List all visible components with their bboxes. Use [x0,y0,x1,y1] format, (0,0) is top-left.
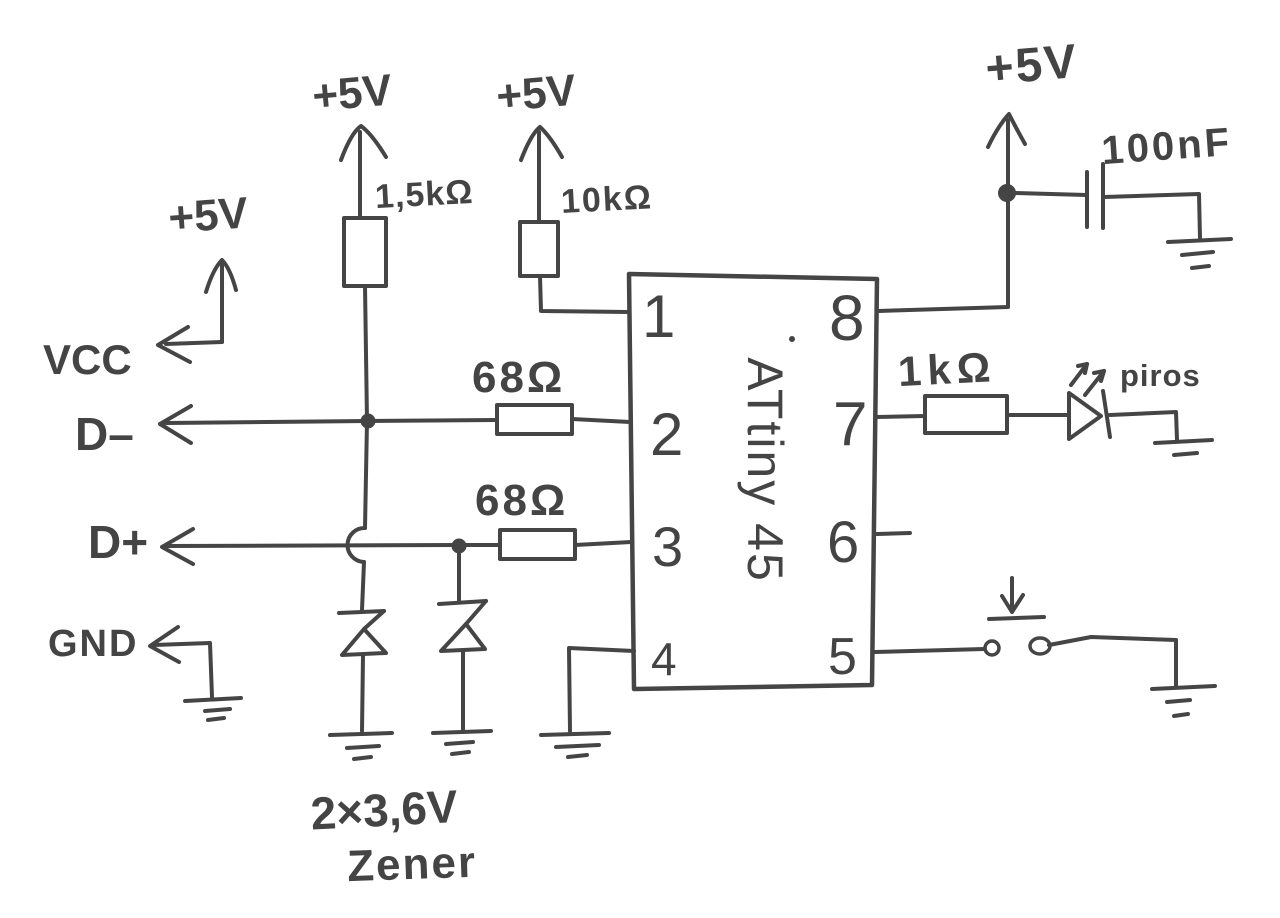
note Zener [346,838,477,892]
LED D3 [1069,391,1110,439]
wire +5V node to C1 [1014,193,1086,195]
power arrow +5V top right [988,114,1025,186]
resistor R1 1.5k [344,218,386,286]
pin 8 label [829,282,865,354]
wire pin5 to switch [875,649,984,652]
ground under pin 4 [541,733,609,757]
svg-text:68Ω: 68Ω [475,476,568,525]
wire R1 to D- junction [365,286,367,421]
value label 10kOhm [560,178,654,221]
wire hop over D+ [348,528,365,562]
wire D+ horizontal [164,545,499,546]
pin 3 label [652,515,683,578]
svg-text:1kΩ: 1kΩ [897,343,998,395]
value label 68Ohm (D-) [472,353,565,402]
svg-text:4: 4 [651,633,677,685]
svg-text:D–: D– [75,408,134,460]
value label 100nF [1100,120,1233,173]
node label GND [48,623,138,665]
svg-text:1: 1 [642,283,675,350]
junction +5V node [1000,186,1014,200]
svg-text:2×3,6V: 2×3,6V [309,780,459,840]
wire pin4 to ground [569,648,634,731]
wire R5 to LED [1007,413,1067,417]
node label VCC [43,336,132,383]
node label D- [75,408,134,460]
value label 68Ohm (D+) [475,476,568,525]
svg-text:7: 7 [833,390,867,459]
svg-text:1,5kΩ: 1,5kΩ [374,173,474,216]
ground under D1 [330,733,392,759]
pin 6 label [827,510,859,575]
capacitor C1 100nF [1087,164,1103,228]
power label +5V above R1 [310,65,394,121]
IC name ATtiny45 [737,357,793,583]
svg-text:D+: D+ [88,516,148,568]
wire LED to ground [1110,412,1177,440]
svg-text:5: 5 [828,628,857,686]
node label D+ [88,516,148,568]
wire pin7 to R5 [876,416,925,417]
GND arrow head [150,627,179,662]
wire pin8 to +5V node [878,200,1008,311]
zener diode D1 [339,611,386,655]
svg-text:3: 3 [652,515,683,578]
wire D2 to ground [461,651,465,729]
wire R3 to pin2 [572,419,630,422]
svg-text:VCC: VCC [43,336,132,383]
resistor R3 68 (D-) [497,405,572,434]
ground right of C1 [1168,239,1231,268]
wire R4 to pin3 [575,542,631,545]
ground under D2 [433,731,491,754]
pin 4 label [651,633,677,685]
D+ arrow head [162,529,193,564]
wire D- horizontal [166,420,497,423]
svg-text:+5V: +5V [983,35,1080,96]
value label 1kOhm [897,343,998,395]
pin 1 label [642,283,675,350]
power arrow above R2 [521,127,562,222]
power label +5V above R2 [494,65,578,121]
svg-text:8: 8 [829,282,865,354]
wire D1 to ground [362,655,363,731]
svg-text:ATtiny 45: ATtiny 45 [737,357,793,583]
svg-text:+5V: +5V [167,188,250,242]
wire hop to zener D1 [362,562,364,610]
label piros [1120,358,1201,393]
junction D+ node [454,541,465,552]
wire R2 to pin1 [540,276,629,312]
switch S1 contacts [985,638,1050,655]
svg-text:piros: piros [1120,358,1201,393]
D- arrow head [160,406,191,443]
power label +5V above VCC arrow [167,188,250,242]
stray pencil dot [789,336,795,342]
switch press arrow [989,578,1044,619]
wire D+ junction to zener D2 [457,546,461,601]
svg-text:+5V: +5V [494,65,578,121]
zener diode D2 [439,601,486,651]
LED light arrows [1071,364,1104,395]
pin 6 stub wire [877,533,910,534]
resistor R5 1k [925,396,1007,433]
IC U1 ATtiny45 body [629,274,877,689]
resistor R4 68 (D+) [500,530,575,559]
pin 2 label [650,401,683,468]
pin 5 label [828,628,857,686]
svg-text:68Ω: 68Ω [472,353,565,402]
svg-text:GND: GND [48,623,138,665]
power label +5V top right [983,35,1080,96]
pin 7 label [833,390,867,459]
note 2x3,6V [309,780,459,840]
ground right of LED [1155,440,1212,455]
ground GND symbol [185,698,241,720]
resistor R2 10k [520,222,558,276]
wire GND [154,643,212,697]
value label 1,5kOhm [374,173,474,216]
svg-text:+5V: +5V [310,65,394,121]
svg-text:2: 2 [650,401,683,468]
wire C1 to ground [1104,194,1200,238]
junction D- node [363,416,374,427]
wire D- junction down to hop [365,421,367,528]
VCC net arrow [158,260,236,362]
wire switch to ground [1049,637,1176,686]
power arrow above R1 [341,126,386,218]
svg-text:10kΩ: 10kΩ [560,178,654,221]
svg-text:100nF: 100nF [1100,120,1233,173]
svg-text:6: 6 [827,510,859,575]
svg-text:Zener: Zener [346,838,477,892]
ground right of switch [1152,686,1215,716]
